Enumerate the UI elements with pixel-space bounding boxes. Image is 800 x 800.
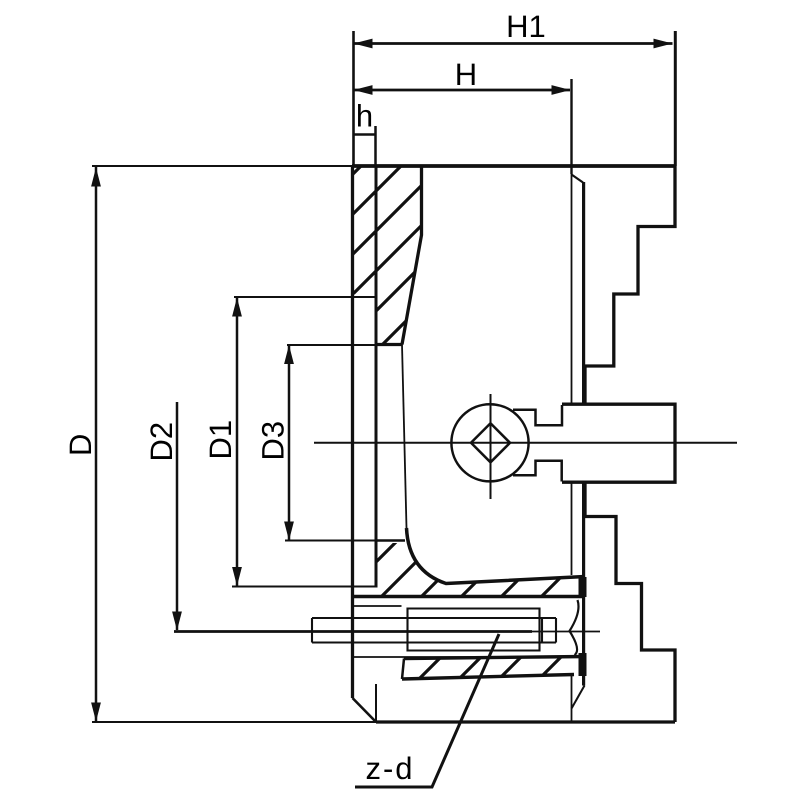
svg-text:D2: D2 bbox=[144, 422, 179, 462]
svg-text:H: H bbox=[455, 57, 477, 92]
svg-text:D3: D3 bbox=[256, 421, 291, 461]
svg-text:h: h bbox=[356, 99, 373, 134]
svg-text:z-d: z-d bbox=[365, 751, 414, 786]
svg-text:D1: D1 bbox=[203, 420, 238, 460]
svg-text:D: D bbox=[63, 434, 98, 456]
svg-text:H1: H1 bbox=[506, 9, 546, 44]
